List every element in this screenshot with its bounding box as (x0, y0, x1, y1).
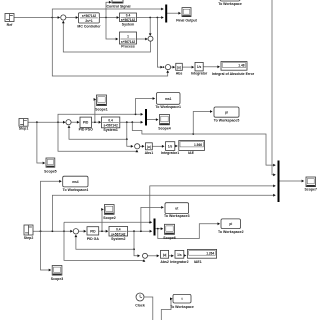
svg-text:s+567142: s+567142 (82, 14, 96, 18)
svg-text:To Workspace1: To Workspace1 (155, 105, 181, 109)
svg-text:IAE: IAE (188, 151, 195, 155)
svg-text:Control Signal: Control Signal (107, 5, 131, 9)
svg-text:Clock: Clock (135, 303, 145, 307)
svg-text:1/s: 1/s (177, 253, 182, 257)
svg-text:Scope6: Scope6 (163, 236, 176, 240)
svg-text:pi: pi (225, 111, 228, 115)
svg-text:1/s: 1/s (168, 144, 173, 148)
svg-text:Scope1: Scope1 (95, 107, 108, 111)
svg-text:Abs: Abs (176, 72, 183, 76)
svg-text:Step2: Step2 (24, 236, 34, 240)
svg-text:Integrator2: Integrator2 (170, 260, 188, 264)
svg-text:Integrator1: Integrator1 (161, 151, 179, 155)
svg-text:1: 1 (127, 35, 129, 39)
svg-text:Scope3: Scope3 (51, 277, 64, 281)
svg-text:s+567142: s+567142 (121, 40, 135, 44)
svg-text:1.48: 1.48 (238, 64, 244, 68)
svg-text:Abs2: Abs2 (160, 260, 169, 264)
svg-text:|u|: |u| (177, 66, 181, 70)
svg-text:Integral of Absolute Error: Integral of Absolute Error (212, 72, 255, 76)
svg-text:System1: System1 (103, 128, 117, 132)
svg-text:s+567142: s+567142 (111, 232, 125, 236)
svg-text:Scope4: Scope4 (158, 127, 171, 131)
svg-text:To Workspace4: To Workspace4 (63, 188, 89, 192)
svg-text:To Workspace: To Workspace (218, 2, 242, 6)
svg-text:Ref: Ref (7, 23, 13, 27)
svg-text:0.4: 0.4 (108, 119, 113, 123)
svg-text:PID: PID (90, 229, 96, 233)
svg-text:To Workspace5: To Workspace5 (214, 118, 240, 122)
svg-text:PID GA: PID GA (87, 237, 100, 241)
svg-text:To Workspace3: To Workspace3 (164, 214, 190, 218)
svg-text:|u|: |u| (163, 253, 167, 257)
svg-text:0.4: 0.4 (116, 228, 121, 232)
svg-text:1/s: 1/s (197, 65, 202, 69)
svg-text:|u|: |u| (147, 145, 151, 149)
svg-text:Scope5: Scope5 (44, 169, 57, 173)
svg-text:Process: Process (121, 45, 135, 49)
svg-text:Scope2: Scope2 (103, 216, 116, 220)
svg-text:s+567142: s+567142 (103, 123, 117, 127)
svg-text:1.566: 1.566 (194, 143, 202, 147)
svg-text:pi: pi (229, 222, 232, 226)
svg-text:Step1: Step1 (19, 127, 29, 131)
svg-text:ms4: ms4 (72, 180, 79, 184)
svg-text:Abs1: Abs1 (145, 151, 154, 155)
svg-text:Final Output: Final Output (176, 19, 197, 23)
svg-text:MC Controller: MC Controller (77, 24, 101, 28)
svg-text:Scope7: Scope7 (304, 188, 317, 192)
svg-text:s+567142: s+567142 (121, 18, 135, 22)
svg-text:To Workspace: To Workspace (170, 305, 194, 309)
svg-text:System2: System2 (111, 237, 125, 241)
svg-text:PID PSO: PID PSO (79, 128, 93, 132)
svg-text:PID: PID (83, 121, 89, 125)
svg-text:1.264: 1.264 (206, 252, 214, 256)
svg-text:2s+1: 2s+1 (85, 19, 92, 23)
svg-text:ms1: ms1 (165, 97, 172, 101)
svg-text:To Workspace2: To Workspace2 (218, 230, 244, 234)
svg-text:System: System (122, 22, 134, 26)
svg-text:Integrator: Integrator (191, 71, 208, 75)
svg-text:IAE1: IAE1 (194, 260, 202, 264)
